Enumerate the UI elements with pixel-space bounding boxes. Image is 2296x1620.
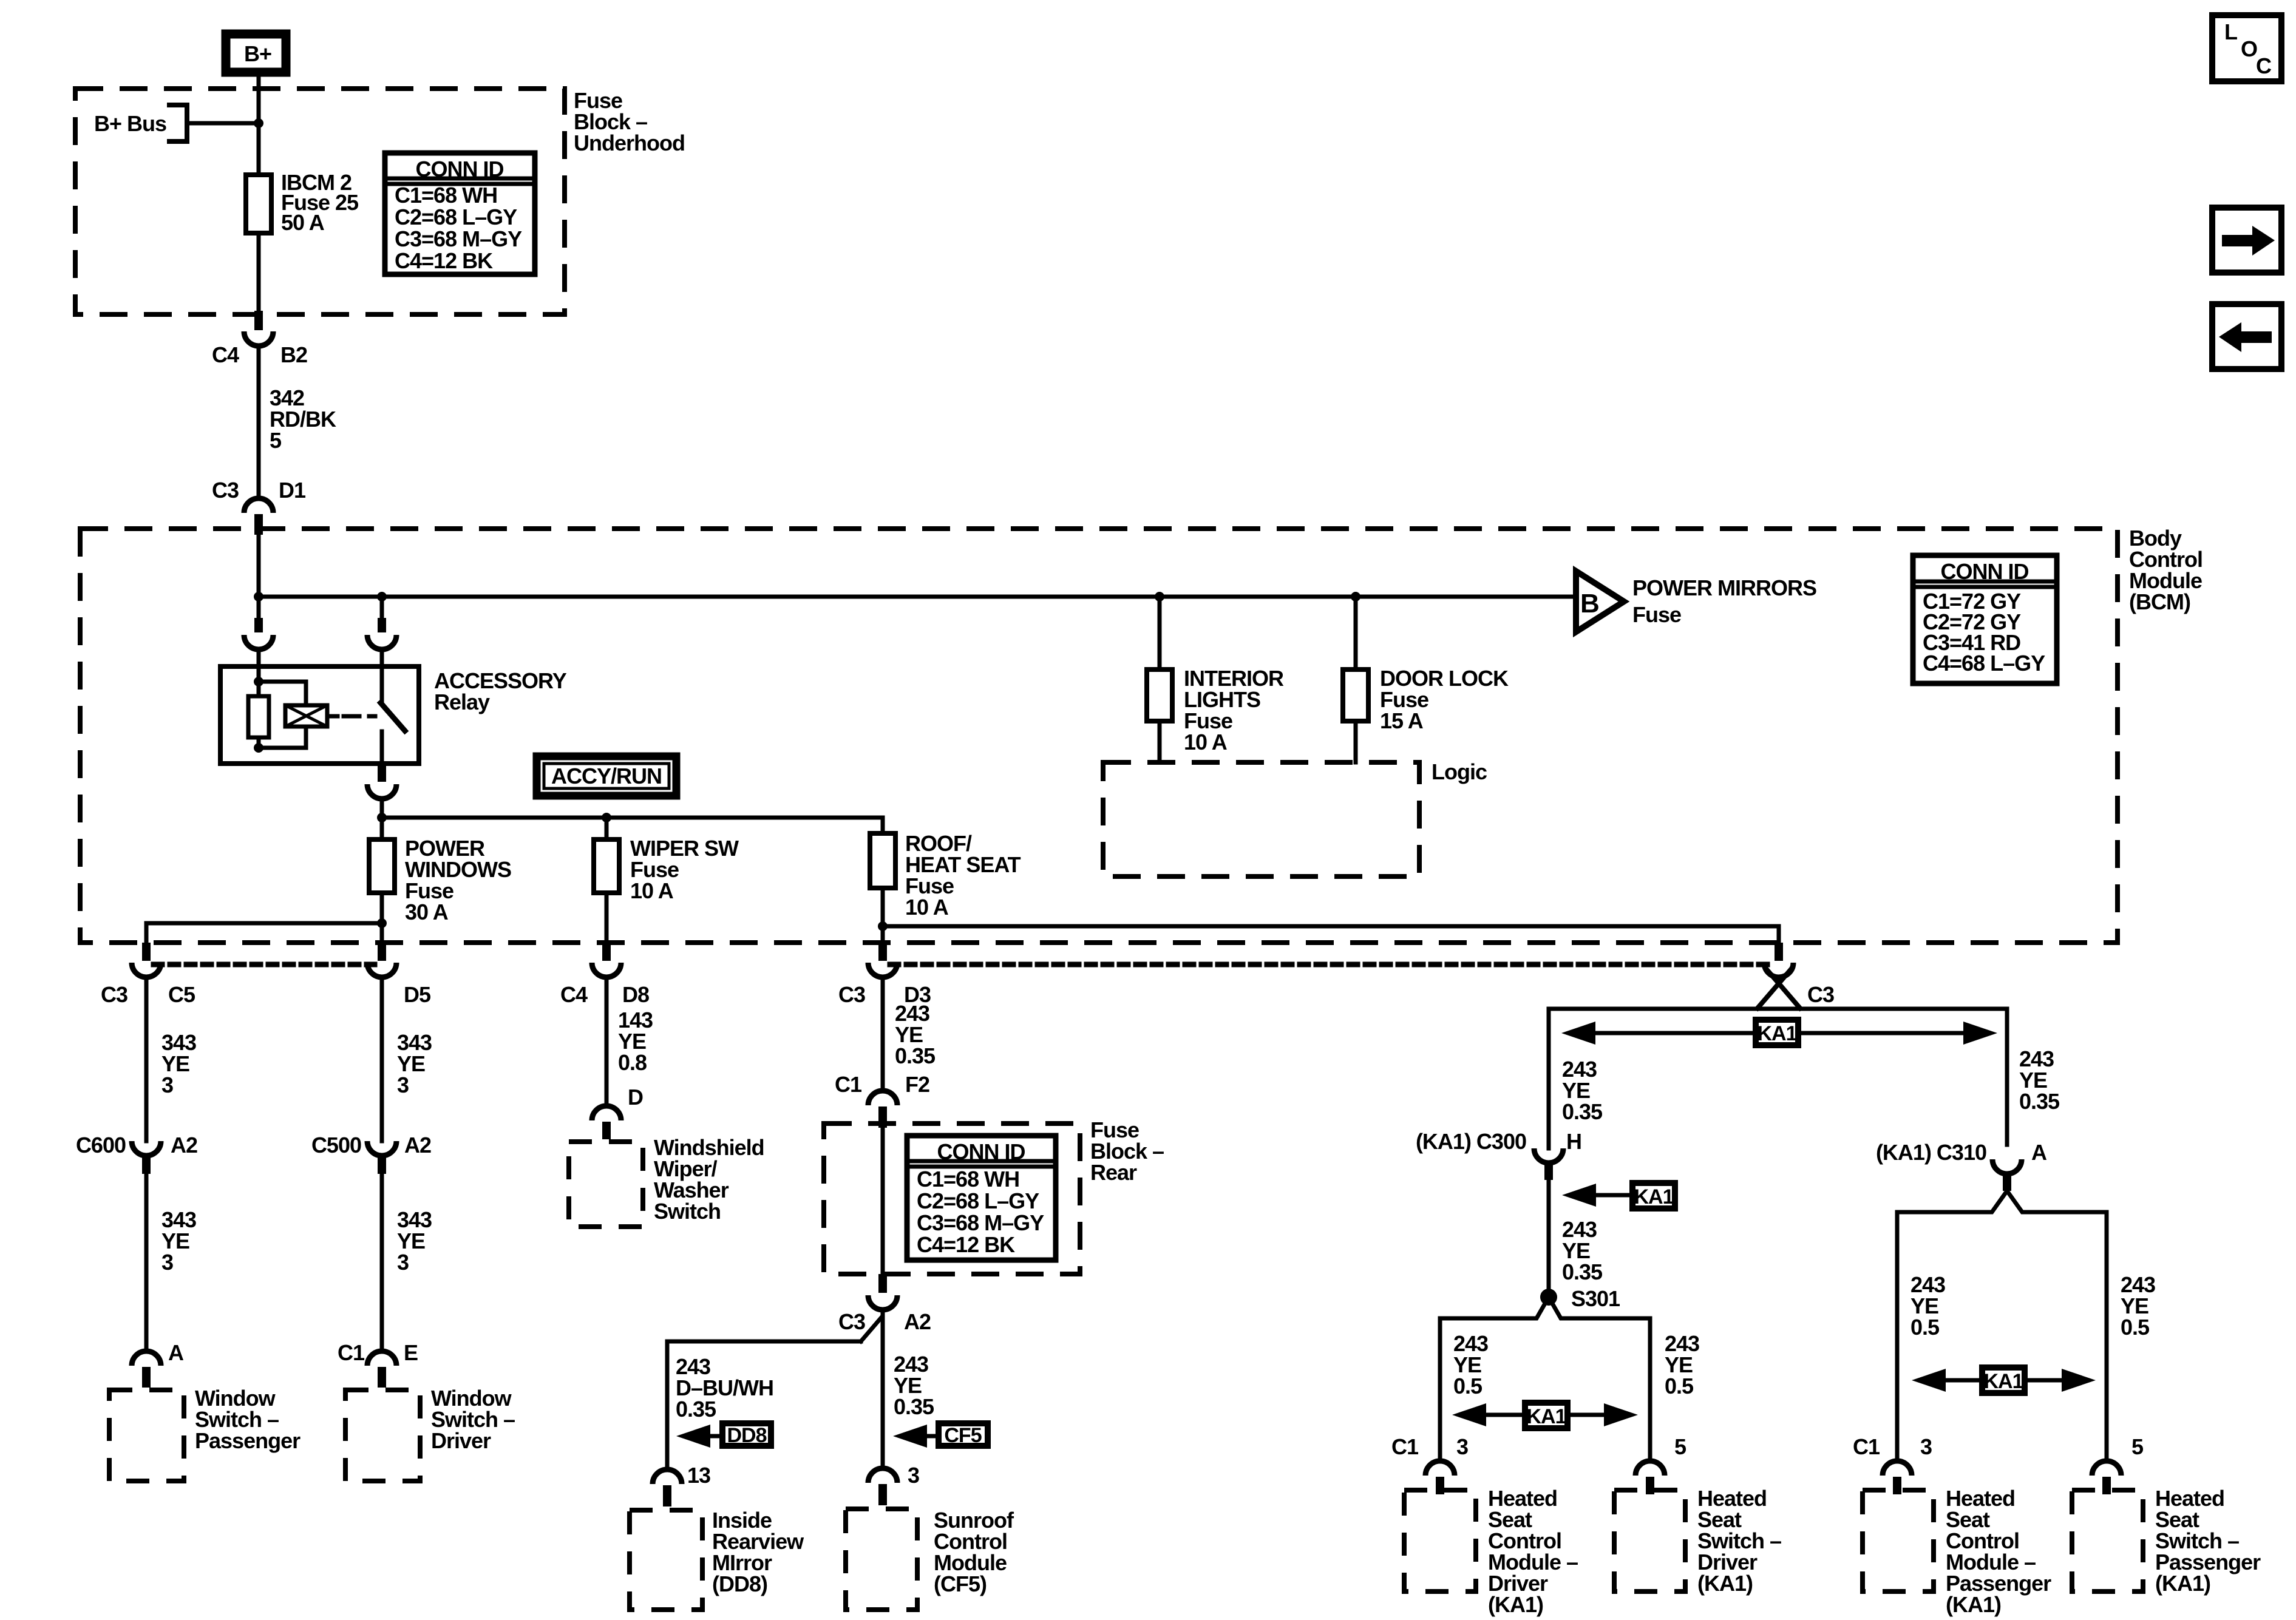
component heated seat switch passenger xyxy=(2072,1486,2261,1596)
svg-text:A: A xyxy=(2031,1140,2047,1165)
svg-text:KA1: KA1 xyxy=(1983,1370,2023,1393)
svg-text:POWER MIRRORS: POWER MIRRORS xyxy=(1632,575,1816,600)
svg-text:(CF5): (CF5) xyxy=(934,1571,987,1596)
wire 243 YE right label xyxy=(2019,1046,2060,1114)
wire relay pin right xyxy=(380,649,384,666)
component heated seat control module passenger xyxy=(1863,1486,2051,1617)
component sunroof control module xyxy=(846,1508,1014,1610)
fuse block rear label xyxy=(1090,1117,1164,1185)
connector 5 hs switch driver xyxy=(1635,1461,1665,1494)
reference arrow KA1 passenger xyxy=(1912,1368,2096,1393)
svg-text:A2: A2 xyxy=(171,1133,197,1157)
conn id table rear xyxy=(907,1136,1056,1260)
svg-text:DD8: DD8 xyxy=(727,1424,766,1447)
power mirrors fuse symbol B xyxy=(1576,571,1816,632)
connector 5 hs switch passenger xyxy=(2092,1461,2121,1494)
svg-text:(KA1): (KA1) xyxy=(1488,1592,1543,1617)
fuse DOOR LOCK xyxy=(1343,666,1509,733)
fuse IBCM 2 xyxy=(246,170,359,235)
svg-text:0.35: 0.35 xyxy=(894,1394,934,1419)
wire accy to wiper fuse xyxy=(605,818,609,839)
connector 3 hsc module passenger xyxy=(1883,1461,1912,1494)
svg-text:0.35: 0.35 xyxy=(1562,1099,1603,1124)
junction roof xyxy=(878,921,888,931)
wire 243 YE to rear block xyxy=(883,977,936,1091)
svg-text:3: 3 xyxy=(1920,1434,1932,1459)
fuse block rear box xyxy=(824,1123,1080,1274)
svg-text:10 A: 10 A xyxy=(1184,730,1228,754)
connector C600/A2 xyxy=(76,1133,197,1174)
conn id table underhood xyxy=(385,153,535,274)
wire right rail xyxy=(883,924,1779,929)
svg-text:C4: C4 xyxy=(560,982,588,1007)
svg-text:0.35: 0.35 xyxy=(895,1043,936,1068)
fuse INTERIOR LIGHTS xyxy=(1147,666,1284,754)
logic box xyxy=(1103,759,1487,876)
wire interior lights fuse to logic xyxy=(1158,721,1162,762)
svg-text:0.5: 0.5 xyxy=(1911,1315,1940,1340)
svg-text:5: 5 xyxy=(2131,1434,2144,1459)
connector C3 heated seats xyxy=(1758,943,1834,1008)
junction door lock xyxy=(1351,592,1360,602)
svg-text:A: A xyxy=(168,1340,184,1365)
dotted connector line left xyxy=(154,962,375,968)
wire C310 split xyxy=(1897,1191,2007,1461)
wire 243 YE 0.5 driver right xyxy=(1665,1331,1699,1398)
svg-text:H: H xyxy=(1566,1129,1581,1154)
svg-text:0.35: 0.35 xyxy=(676,1397,716,1422)
svg-text:B+: B+ xyxy=(244,41,271,66)
fuse WIPER SW xyxy=(594,836,739,903)
svg-text:Underhood: Underhood xyxy=(574,130,685,155)
fuse ROOF/HEAT SEAT xyxy=(870,831,1021,920)
svg-text:D1: D1 xyxy=(279,478,306,503)
svg-text:0.8: 0.8 xyxy=(618,1050,647,1075)
svg-text:(BCM): (BCM) xyxy=(2129,589,2190,614)
wire relay pin left xyxy=(257,649,261,666)
svg-text:3: 3 xyxy=(1456,1434,1468,1459)
wire door lock fuse to logic xyxy=(1354,721,1358,762)
connector C4/B2 xyxy=(212,311,307,367)
svg-text:KA1: KA1 xyxy=(1634,1185,1673,1208)
svg-text:D8: D8 xyxy=(622,982,649,1007)
svg-text:F2: F2 xyxy=(905,1072,929,1097)
connector D5 xyxy=(367,943,431,1007)
svg-text:C2=68 L–GY: C2=68 L–GY xyxy=(917,1188,1039,1213)
reference arrow KA1 driver xyxy=(1452,1403,1638,1428)
wire relay to accy line xyxy=(380,799,384,818)
node ACCY/RUN xyxy=(537,756,676,796)
svg-text:(KA1): (KA1) xyxy=(2155,1571,2210,1596)
svg-text:C4=68 L–GY: C4=68 L–GY xyxy=(1923,651,2045,676)
connector 3 sunroof xyxy=(868,1468,897,1505)
junction pw xyxy=(377,918,387,928)
nav arrow right xyxy=(2212,208,2281,273)
wire roof fuse down xyxy=(881,888,885,943)
svg-text:C3: C3 xyxy=(838,1309,865,1334)
svg-text:(KA1) C300: (KA1) C300 xyxy=(1416,1129,1526,1154)
reference arrow CF5 xyxy=(893,1423,988,1448)
wire A2 split diagonal xyxy=(861,1310,883,1341)
connector C3/D3 xyxy=(838,943,931,1007)
svg-text:B2: B2 xyxy=(280,342,307,367)
relay ACCESSORY xyxy=(220,666,567,764)
svg-text:(DD8): (DD8) xyxy=(712,1571,767,1596)
svg-text:10 A: 10 A xyxy=(905,895,949,920)
svg-text:C3: C3 xyxy=(212,478,239,503)
svg-text:C2=68 L–GY: C2=68 L–GY xyxy=(395,205,517,229)
svg-text:C4: C4 xyxy=(212,342,239,367)
wire S301 split xyxy=(1440,1297,1549,1461)
wire heated seat rail xyxy=(1549,1009,2007,1148)
svg-text:C: C xyxy=(2256,53,2272,78)
splice S301 xyxy=(1540,1286,1620,1311)
svg-text:C5: C5 xyxy=(168,982,195,1007)
wire 343 passenger lower xyxy=(146,1174,196,1351)
wire fuse to C4 xyxy=(257,233,261,314)
svg-text:S301: S301 xyxy=(1571,1286,1620,1311)
svg-text:10 A: 10 A xyxy=(630,878,674,903)
wire 243 D-BU/WH label xyxy=(676,1354,773,1422)
svg-text:C1: C1 xyxy=(1853,1434,1880,1459)
body control module box xyxy=(80,529,2118,943)
svg-text:(KA1) C310: (KA1) C310 xyxy=(1876,1140,1986,1165)
svg-text:B: B xyxy=(1580,589,1599,619)
svg-text:A2: A2 xyxy=(404,1133,431,1157)
wire accy to pw fuse xyxy=(380,818,384,839)
junction B+ bus xyxy=(254,118,263,128)
component window switch passenger xyxy=(109,1386,301,1481)
wire C3/D1 to bus xyxy=(257,535,261,622)
svg-text:CONN ID: CONN ID xyxy=(1941,559,2029,584)
svg-text:CONN ID: CONN ID xyxy=(416,157,504,181)
component windshield wiper washer switch xyxy=(569,1135,764,1227)
junction accy left xyxy=(377,813,387,822)
svg-text:Driver: Driver xyxy=(431,1428,491,1453)
wire 243 YE left label xyxy=(1562,1057,1603,1124)
svg-text:13: 13 xyxy=(687,1463,710,1488)
svg-text:O: O xyxy=(2241,36,2257,61)
power symbol B+ xyxy=(226,34,286,72)
svg-text:Logic: Logic xyxy=(1432,759,1487,784)
connector relay output xyxy=(367,764,396,799)
body control module label xyxy=(2129,526,2203,614)
svg-text:Rear: Rear xyxy=(1090,1160,1137,1185)
svg-text:D: D xyxy=(628,1085,643,1110)
svg-text:ACCY/RUN: ACCY/RUN xyxy=(551,764,662,788)
svg-text:3: 3 xyxy=(397,1073,409,1097)
wire 243 YE 0.5 passenger right xyxy=(2121,1272,2155,1340)
wire 343 driver upper xyxy=(382,977,432,1141)
svg-text:C1: C1 xyxy=(1391,1434,1419,1459)
component window switch driver xyxy=(345,1386,515,1481)
junction accy wiper xyxy=(602,813,611,822)
node B+ Bus xyxy=(94,105,187,141)
svg-text:C4=12 BK: C4=12 BK xyxy=(395,248,493,273)
svg-text:0.35: 0.35 xyxy=(2019,1089,2060,1114)
wire 243 YE 0.5 driver left xyxy=(1453,1331,1488,1398)
svg-text:5: 5 xyxy=(270,428,282,453)
component inside rearview mirror xyxy=(630,1508,804,1610)
svg-text:Passenger: Passenger xyxy=(195,1428,301,1453)
connector C3/D1 xyxy=(212,478,306,535)
wire accy/run line xyxy=(382,818,883,833)
connector 13 mirror xyxy=(653,1469,682,1506)
svg-text:Fuse: Fuse xyxy=(1632,602,1681,627)
svg-text:3: 3 xyxy=(161,1073,173,1097)
connector C1/F2 xyxy=(835,1072,929,1128)
connector C4/D8 xyxy=(560,943,649,1007)
svg-text:Relay: Relay xyxy=(434,690,490,714)
wire 243 YE to sunroof xyxy=(883,1310,934,1468)
junction interior lights xyxy=(1155,592,1164,602)
wire bus to relay right pin xyxy=(380,597,384,622)
svg-text:0.35: 0.35 xyxy=(1562,1259,1603,1284)
svg-text:5: 5 xyxy=(1674,1434,1686,1459)
svg-text:CF5: CF5 xyxy=(944,1424,981,1447)
fuse block underhood box xyxy=(75,89,565,314)
svg-text:L: L xyxy=(2224,19,2237,44)
connector C3/A2 xyxy=(838,1274,931,1334)
svg-text:C4=12 BK: C4=12 BK xyxy=(917,1232,1015,1257)
svg-text:0.5: 0.5 xyxy=(1453,1374,1483,1398)
component heated seat control module driver xyxy=(1404,1486,1578,1617)
svg-text:C500: C500 xyxy=(311,1133,361,1157)
wire left rail xyxy=(146,923,382,943)
svg-text:(KA1): (KA1) xyxy=(1946,1592,2001,1617)
reference arrow KA1 single xyxy=(1562,1183,1675,1208)
connector C1/E driver switch xyxy=(338,1340,418,1388)
reference arrow DD8 xyxy=(676,1423,771,1448)
svg-text:C1: C1 xyxy=(338,1340,365,1365)
bus wire BCM xyxy=(259,595,1576,599)
svg-text:C1=68 WH: C1=68 WH xyxy=(395,183,497,208)
svg-text:30 A: 30 A xyxy=(405,900,449,924)
connector 3 hsc module driver xyxy=(1425,1461,1455,1494)
wire bus to door lock fuse xyxy=(1354,597,1358,669)
svg-text:C600: C600 xyxy=(76,1133,126,1157)
wire wiper fuse down xyxy=(605,893,609,943)
wire 342 RD/BK xyxy=(259,346,336,498)
wire pw fuse down xyxy=(380,893,384,943)
connector C300 H xyxy=(1416,1129,1581,1180)
svg-text:C3=68 M–GY: C3=68 M–GY xyxy=(917,1210,1044,1235)
connector D wiper switch xyxy=(592,1085,643,1139)
wire 343 driver lower xyxy=(382,1174,432,1351)
nav arrow left xyxy=(2212,304,2281,369)
wire 243 YE 0.35 below C300 xyxy=(1549,1180,1603,1297)
wire rail corner down xyxy=(1777,926,1781,943)
svg-text:C3: C3 xyxy=(1807,982,1834,1007)
wire 143 YE xyxy=(606,977,653,1106)
wire B+ to fuse xyxy=(257,72,261,175)
connector C310 A xyxy=(1876,1140,2047,1191)
connector C3/C5 xyxy=(101,943,195,1007)
svg-text:3: 3 xyxy=(161,1250,173,1275)
loc box xyxy=(2212,15,2281,81)
connector A passenger switch xyxy=(132,1340,184,1388)
svg-text:C1: C1 xyxy=(835,1072,862,1097)
wire mirror feed xyxy=(667,1341,861,1469)
fuse block underhood label xyxy=(574,88,685,155)
svg-text:C3=68 M–GY: C3=68 M–GY xyxy=(395,226,522,251)
svg-text:E: E xyxy=(404,1340,418,1365)
connector relay pin left xyxy=(244,618,273,649)
wire bus to interior lights fuse xyxy=(1158,597,1162,669)
svg-text:3: 3 xyxy=(908,1463,919,1488)
wire 343 passenger upper xyxy=(146,977,196,1141)
svg-text:C1=68 WH: C1=68 WH xyxy=(917,1167,1019,1191)
svg-text:0.5: 0.5 xyxy=(1665,1374,1694,1398)
svg-text:B+ Bus: B+ Bus xyxy=(94,111,166,136)
svg-text:3: 3 xyxy=(397,1250,409,1275)
wire B+ bus to main xyxy=(187,121,259,126)
svg-text:C3: C3 xyxy=(838,982,865,1007)
junction bus relay xyxy=(377,592,387,602)
svg-text:CONN ID: CONN ID xyxy=(937,1139,1025,1164)
svg-text:Switch: Switch xyxy=(654,1199,721,1224)
svg-text:15 A: 15 A xyxy=(1380,708,1424,733)
svg-text:(KA1): (KA1) xyxy=(1697,1571,1753,1596)
wire 243 YE 0.5 passenger left xyxy=(1911,1272,1945,1340)
wire inside rear block xyxy=(881,1128,885,1274)
conn id table BCM xyxy=(1913,555,2057,683)
reference arrow KA1 header xyxy=(1561,1020,1997,1045)
svg-text:D5: D5 xyxy=(404,982,431,1007)
svg-text:C3: C3 xyxy=(101,982,127,1007)
connector C500/A2 xyxy=(311,1133,431,1174)
svg-text:A2: A2 xyxy=(904,1309,931,1334)
svg-text:0.5: 0.5 xyxy=(2121,1315,2150,1340)
junction bus left xyxy=(254,592,263,602)
dotted connector line right xyxy=(890,962,1771,968)
svg-text:KA1: KA1 xyxy=(1757,1022,1796,1045)
svg-text:KA1: KA1 xyxy=(1526,1405,1566,1428)
connector relay pin right xyxy=(367,618,396,649)
svg-text:50 A: 50 A xyxy=(281,210,325,235)
component heated seat switch driver xyxy=(1614,1486,1781,1596)
fuse POWER WINDOWS xyxy=(369,836,511,924)
